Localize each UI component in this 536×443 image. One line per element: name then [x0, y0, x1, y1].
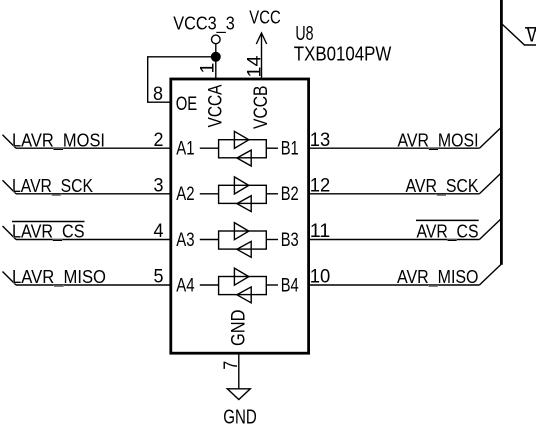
svg-text:12: 12 — [310, 174, 331, 196]
svg-text:VCCB: VCCB — [250, 86, 272, 130]
power symbol VCC3_3 — [173, 14, 235, 44]
svg-text:AVR_SCK: AVR_SCK — [406, 176, 479, 197]
svg-text:2: 2 — [154, 129, 164, 151]
buffer channel 1 — [200, 131, 278, 166]
svg-text:A2: A2 — [176, 183, 194, 205]
wire pin 10 to AVR_MISO — [309, 264, 502, 285]
svg-text:U8: U8 — [295, 23, 313, 45]
buffer channel 4 — [200, 268, 278, 303]
svg-text:B1: B1 — [281, 138, 299, 160]
wire pin 12 to AVR_SCK — [309, 173, 502, 194]
svg-text:5: 5 — [154, 266, 164, 288]
vertical bus wire at right — [500, 0, 503, 265]
net label AVR_CS with overline — [416, 220, 479, 242]
svg-text:VCC3_3: VCC3_3 — [173, 14, 235, 35]
wire pin 7 to ground symbol — [238, 353, 240, 389]
wire junction to pin 8 OE — [148, 57, 216, 102]
svg-text:B4: B4 — [281, 274, 299, 296]
net label W with overline (clipped at edge) — [525, 26, 536, 46]
svg-text:8: 8 — [153, 83, 163, 105]
svg-text:10: 10 — [310, 266, 331, 288]
svg-text:1: 1 — [197, 63, 219, 74]
wire LAVR_MOSI to pin 2 — [3, 135, 171, 149]
wire VCC to pin 14 VCCB — [261, 34, 263, 80]
op-amp U1 : IC U8 body — [171, 79, 309, 353]
buffer channel 2 — [200, 177, 278, 212]
wire bus to W net top right — [501, 24, 536, 46]
wire LAVR_SCK to pin 3 — [3, 180, 171, 194]
svg-text:11: 11 — [310, 220, 331, 242]
svg-text:14: 14 — [244, 55, 266, 77]
svg-text:AVR_MISO: AVR_MISO — [397, 267, 479, 288]
svg-text:GND: GND — [228, 310, 250, 347]
wire LAVR_CS to pin 4 — [3, 226, 171, 240]
svg-text:VCC: VCC — [249, 8, 281, 28]
svg-text:B3: B3 — [281, 229, 299, 251]
wire LAVR_MISO to pin 5 — [3, 272, 171, 286]
svg-text:LAVR_SCK: LAVR_SCK — [12, 176, 93, 197]
svg-text:3: 3 — [154, 174, 164, 196]
power symbol VCC — [249, 8, 281, 45]
svg-text:TXB0104PW: TXB0104PW — [294, 43, 392, 65]
junction node at VCC3_3 branch — [211, 52, 221, 62]
svg-text:4: 4 — [154, 220, 164, 242]
svg-text:OE: OE — [176, 93, 198, 115]
svg-text:A1: A1 — [176, 138, 194, 160]
svg-text:LAVR_MISO: LAVR_MISO — [12, 267, 106, 288]
svg-text:A3: A3 — [176, 229, 194, 251]
svg-text:GND: GND — [223, 407, 257, 429]
svg-text:VCCA: VCCA — [205, 85, 227, 128]
wire VCC3_3 to pin 1 VCCA — [215, 44, 217, 79]
net label LAVR_CS with overline — [12, 222, 85, 243]
svg-text:A4: A4 — [176, 274, 194, 296]
svg-text:LAVR_MOSI: LAVR_MOSI — [12, 130, 105, 151]
ground symbol GND — [223, 389, 257, 429]
svg-text:AVR_CS: AVR_CS — [417, 222, 479, 243]
svg-text:AVR_MOSI: AVR_MOSI — [398, 130, 479, 151]
wire pin 13 to AVR_MOSI — [309, 127, 502, 148]
buffer channel 3 — [200, 223, 278, 258]
wire pin 11 to AVR_CS — [309, 219, 502, 240]
svg-text:B2: B2 — [281, 183, 299, 205]
svg-text:LAVR_CS: LAVR_CS — [12, 222, 85, 243]
